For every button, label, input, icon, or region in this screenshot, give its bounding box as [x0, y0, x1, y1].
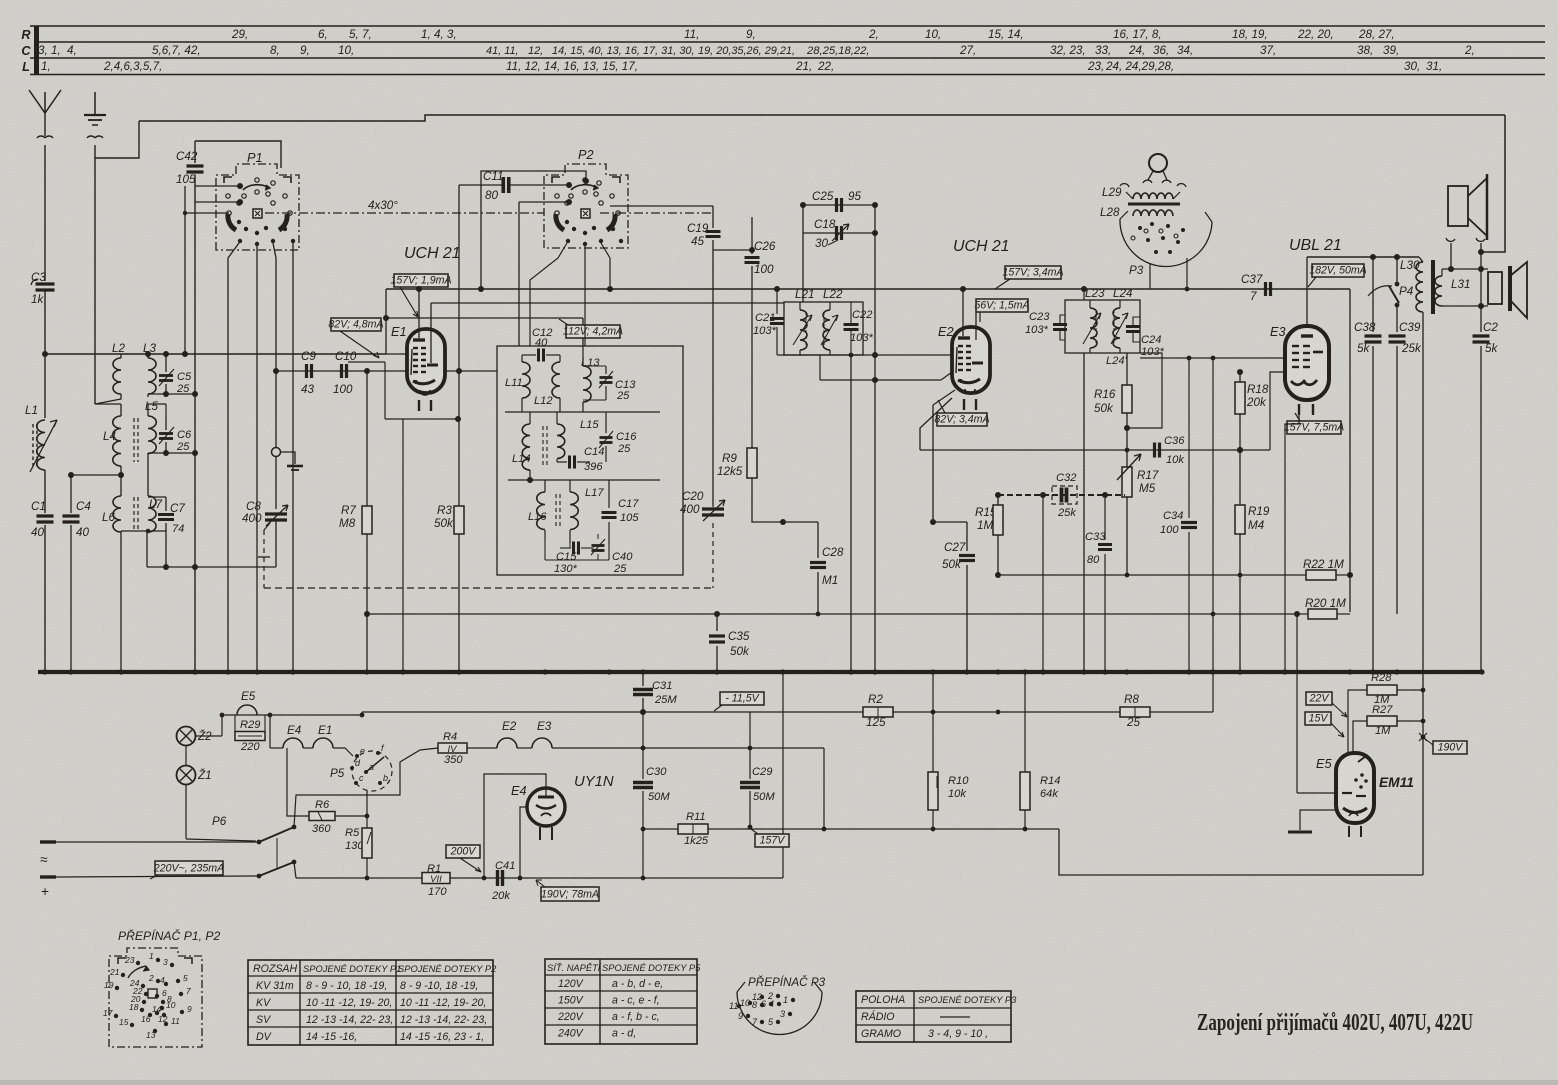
svg-text:125: 125	[866, 716, 886, 729]
svg-text:25: 25	[176, 441, 190, 453]
svg-text:L13: L13	[581, 357, 600, 369]
svg-text:25: 25	[176, 383, 190, 395]
svg-text:25k: 25k	[1401, 342, 1422, 355]
wire P3 connections	[1186, 258, 1188, 289]
svg-text:5k: 5k	[1485, 342, 1498, 355]
svg-text:E3: E3	[537, 720, 552, 733]
svg-text:240V: 240V	[557, 1028, 584, 1040]
wire r20 line y=612	[1084, 611, 1297, 613]
svg-text:12 -13 -14, 22- 23,: 12 -13 -14, 22- 23,	[400, 1014, 487, 1026]
wire heater top y=715	[222, 714, 362, 716]
wire L6 column to bus	[120, 531, 122, 672]
wire x=1043 to bus	[1042, 495, 1044, 672]
wire heater end drop x=824	[823, 748, 825, 829]
capacitor C15 130	[572, 542, 575, 555]
svg-text:100: 100	[1160, 524, 1179, 536]
svg-text:190V: 190V	[1438, 742, 1464, 754]
svg-text:64k: 64k	[1040, 788, 1059, 800]
svg-text:11, 12, 14, 16, 13, 15, 17,: 11, 12, 14, 16, 13, 15, 17,	[506, 60, 638, 73]
svg-text:+: +	[41, 884, 49, 899]
svg-text:18: 18	[129, 1002, 139, 1012]
svg-text:EM11: EM11	[1379, 775, 1414, 790]
table ROZSAH	[248, 960, 493, 1045]
speaker hooks	[1446, 238, 1455, 241]
wire L23 box feeds	[1083, 289, 1085, 300]
svg-text:C30: C30	[646, 766, 667, 778]
svg-text:2: 2	[148, 973, 154, 983]
EM11 cathode ground	[1300, 810, 1336, 830]
wire IF box bottom joins	[545, 559, 609, 561]
value box 220V 235mA	[155, 861, 223, 875]
wire L2-L4 link	[95, 403, 121, 405]
svg-text:2,: 2,	[1464, 44, 1475, 57]
svg-text:41, 11,: 41, 11,	[486, 45, 519, 57]
svg-text:C25: C25	[812, 190, 834, 203]
svg-text:R7: R7	[341, 504, 356, 517]
svg-text:R28: R28	[1371, 672, 1392, 684]
svg-text:Ž1: Ž1	[197, 769, 212, 782]
wire plate to L30 y=257	[1307, 256, 1419, 258]
IF transformer box L11-L17	[497, 346, 683, 575]
svg-text:C10: C10	[335, 350, 357, 363]
svg-text:16: 16	[141, 1014, 151, 1024]
svg-text:L28: L28	[1100, 206, 1120, 219]
svg-text:E2: E2	[502, 720, 517, 733]
wire C25/C18 left drop	[802, 205, 804, 302]
svg-text:15: 15	[119, 1017, 129, 1027]
svg-text:UY1N: UY1N	[574, 774, 614, 790]
svg-text:95: 95	[848, 190, 861, 203]
svg-text:8,: 8,	[270, 44, 280, 57]
svg-text:R3: R3	[437, 504, 452, 517]
svg-text:20k: 20k	[491, 890, 511, 902]
svg-text:103*: 103*	[1141, 346, 1165, 358]
svg-text:30: 30	[815, 237, 828, 250]
wire x=195 taps	[192, 450, 198, 456]
svg-text:8 - 9 -10, 18 -19,: 8 - 9 -10, 18 -19,	[400, 980, 478, 992]
capacitor C16 25 trimmer	[605, 412, 607, 433]
svg-text:22, 20,: 22, 20,	[1297, 28, 1334, 41]
wire oscillator coil return y=567	[147, 566, 276, 568]
svg-text:P3: P3	[1129, 264, 1144, 277]
svg-text:25M: 25M	[654, 694, 677, 706]
wire L3 bottom	[148, 393, 195, 395]
svg-text:R10: R10	[948, 775, 969, 787]
antenna coupling hook	[37, 136, 53, 138]
svg-text:C31: C31	[652, 680, 672, 692]
svg-text:L5: L5	[145, 400, 158, 413]
svg-text:157V; 1,9mA: 157V; 1,9mA	[390, 275, 451, 287]
svg-text:C39: C39	[1399, 321, 1421, 334]
svg-text:C1: C1	[31, 500, 46, 513]
wire C11 drop x=519	[518, 202, 520, 346]
transformer core L30/L31	[1431, 260, 1435, 314]
svg-text:220V~, 235mA: 220V~, 235mA	[153, 863, 224, 875]
capacitor C17 105	[608, 480, 610, 508]
dial lamp	[1149, 154, 1167, 172]
ground stub at grid leak	[287, 465, 303, 468]
svg-text:157V: 157V	[760, 835, 786, 847]
svg-text:5: 5	[183, 973, 188, 983]
value box 182V 50mA	[1312, 264, 1364, 277]
svg-text:C36: C36	[1164, 435, 1185, 447]
value box 82V 4,8mA	[331, 318, 381, 331]
value box 190V 78mA	[541, 887, 599, 901]
svg-text:C14: C14	[584, 446, 604, 458]
svg-text:C35: C35	[728, 630, 750, 643]
svg-text:50M: 50M	[753, 791, 775, 803]
core dashes L4/L5	[133, 418, 135, 462]
svg-text:C28: C28	[822, 546, 844, 559]
svg-text:C11: C11	[483, 170, 504, 183]
gang dashed C20 drop	[712, 523, 714, 588]
svg-text:C4: C4	[76, 500, 91, 513]
loudspeaker top	[1448, 186, 1468, 226]
svg-text:14 -15 -16,: 14 -15 -16,	[306, 1031, 357, 1043]
wire ground line down to L2 bottom	[94, 145, 96, 404]
wire antenna down to C3	[44, 145, 46, 281]
tuned circuit box L23/L24	[1065, 300, 1140, 353]
wire x=195 to bus	[194, 530, 196, 532]
svg-text:C33: C33	[1085, 531, 1106, 543]
svg-text:23: 23	[124, 955, 135, 965]
wire E2 lower grid y=380	[819, 355, 821, 380]
svg-text:5,6,7, 42,: 5,6,7, 42,	[152, 44, 201, 57]
svg-text:R22 1M: R22 1M	[1303, 558, 1344, 571]
wire E2 plate risers	[962, 289, 964, 336]
lamp Z2	[177, 727, 196, 746]
svg-text:UCH 21: UCH 21	[953, 238, 1010, 255]
svg-text:2,: 2,	[868, 28, 879, 41]
gang dashed C8 drop	[264, 523, 270, 530]
wire x=1213 drop	[1212, 358, 1214, 614]
svg-text:C20: C20	[682, 490, 704, 503]
svg-text:a - d,: a - d,	[612, 1028, 636, 1040]
antenna symbol	[29, 90, 61, 113]
wire EM11 grid feeds	[1348, 690, 1367, 770]
value box 157V	[755, 834, 789, 847]
wire E3 plate riser	[1306, 257, 1308, 326]
svg-text:10,: 10,	[925, 28, 941, 41]
bus junction dots	[42, 669, 47, 674]
svg-text:VII: VII	[430, 874, 442, 885]
capacitor C6 25 trimmer	[165, 415, 167, 430]
value box 157V 3,4mA	[1005, 266, 1061, 279]
svg-text:38,: 38,	[1357, 44, 1373, 57]
wire E3 cathode to bus	[1285, 413, 1299, 672]
svg-text:14 -15 -16, 23 - 1,: 14 -15 -16, 23 - 1,	[400, 1031, 484, 1043]
svg-text:R29: R29	[240, 719, 260, 731]
wire L24 secondary down	[1126, 353, 1128, 385]
svg-text:50k: 50k	[942, 558, 962, 571]
svg-text:8: 8	[752, 1000, 757, 1010]
capacitor C5 25 trimmer	[165, 354, 167, 372]
switch P1 body	[216, 164, 299, 250]
svg-text:50M: 50M	[648, 791, 670, 803]
lamp Z1	[177, 766, 196, 785]
svg-text:C19: C19	[687, 222, 709, 235]
svg-text:L15: L15	[580, 419, 599, 431]
svg-text:R8: R8	[1124, 693, 1139, 706]
svg-text:M8: M8	[339, 517, 356, 530]
svg-text:30,: 30,	[1404, 60, 1420, 73]
svg-text:10: 10	[740, 998, 750, 1008]
wire C11 feed	[459, 184, 503, 186]
svg-text:UBL 21: UBL 21	[1289, 237, 1342, 254]
svg-text:74: 74	[172, 523, 184, 535]
capacitor C24 103	[1126, 325, 1140, 328]
svg-text:22,: 22,	[817, 60, 834, 73]
svg-text:80: 80	[485, 189, 498, 202]
svg-text:6,: 6,	[318, 28, 328, 41]
svg-text:E4: E4	[287, 724, 302, 737]
svg-text:P4: P4	[1399, 285, 1414, 298]
wire L5 bottom y=453	[148, 452, 195, 454]
svg-text:130*: 130*	[554, 563, 578, 575]
svg-text:25k: 25k	[1057, 507, 1077, 519]
svg-text:40: 40	[76, 526, 89, 539]
svg-text:5k: 5k	[1357, 342, 1370, 355]
svg-text:1M: 1M	[977, 519, 993, 532]
wire avc line y=614	[367, 613, 1297, 615]
svg-text:9: 9	[738, 1011, 743, 1021]
svg-text:18, 19,: 18, 19,	[1232, 28, 1268, 41]
svg-text:3, 1,: 3, 1,	[38, 44, 61, 57]
wire x=1213 riser	[1212, 614, 1214, 712]
wire E1 plate riser	[385, 289, 387, 354]
svg-text:20k: 20k	[1246, 396, 1267, 409]
svg-text:POLOHA: POLOHA	[861, 994, 905, 1006]
wire y=318 to IF	[386, 317, 583, 319]
loudspeaker right	[1488, 272, 1502, 304]
svg-text:E4: E4	[511, 783, 527, 798]
svg-text:R18: R18	[1247, 383, 1269, 396]
svg-text:R16: R16	[1094, 388, 1116, 401]
svg-text:RÁDIO: RÁDIO	[861, 1010, 895, 1023]
table SIT NAPETI	[545, 959, 697, 1044]
svg-text:E5: E5	[1316, 756, 1332, 771]
svg-text:- 11,5V: - 11,5V	[725, 693, 759, 705]
resistor R10 10k	[932, 672, 934, 772]
svg-text:C9: C9	[301, 350, 316, 363]
wire C19 to C26	[713, 249, 752, 251]
wire IF mid y=412	[505, 411, 660, 413]
svg-text:360: 360	[312, 823, 331, 835]
svg-text:C22: C22	[852, 309, 873, 321]
svg-text:P2: P2	[578, 147, 594, 162]
svg-text:1, 4, 3,: 1, 4, 3,	[421, 28, 457, 41]
value box 157V 1,9mA	[394, 274, 448, 287]
svg-text:100: 100	[333, 383, 353, 396]
svg-text:SPOJENÉ DOTEKY P1: SPOJENÉ DOTEKY P1	[303, 964, 401, 974]
svg-text:R14: R14	[1040, 775, 1060, 787]
svg-text:R27: R27	[1372, 704, 1393, 716]
svg-text:M1: M1	[822, 574, 838, 587]
mains terminals	[40, 840, 56, 843]
svg-text:15V: 15V	[1309, 713, 1329, 725]
svg-text:50k: 50k	[1094, 402, 1114, 415]
svg-text:9: 9	[187, 1004, 192, 1014]
svg-text:R5: R5	[345, 827, 360, 839]
svg-text:120V: 120V	[558, 978, 584, 990]
svg-text:L17: L17	[585, 487, 604, 499]
svg-text:1k: 1k	[31, 293, 44, 306]
svg-text:50k: 50k	[730, 645, 750, 658]
svg-text:39,: 39,	[1383, 44, 1399, 57]
svg-text:16, 17, 8,: 16, 17, 8,	[1113, 28, 1162, 41]
svg-text:29,: 29,	[231, 28, 248, 41]
gang dashed bottom run	[264, 587, 713, 589]
svg-text:b: b	[383, 773, 388, 783]
wire to speaker2	[1480, 252, 1482, 332]
wire R16 bypass	[1127, 353, 1162, 428]
svg-text:10k: 10k	[948, 788, 967, 800]
svg-text:L31: L31	[1451, 278, 1470, 291]
svg-text:4,: 4,	[67, 44, 77, 57]
svg-text:112V; 4,2mA: 112V; 4,2mA	[563, 326, 623, 338]
svg-text:40: 40	[535, 337, 548, 349]
svg-text:C17: C17	[618, 498, 639, 510]
svg-text:25: 25	[617, 443, 631, 455]
svg-text:3 - 4, 9 - 10 ,: 3 - 4, 9 - 10 ,	[928, 1028, 988, 1040]
svg-text:C2: C2	[1483, 321, 1498, 334]
svg-text:E1: E1	[318, 724, 332, 737]
svg-text:15, 14,: 15, 14,	[988, 28, 1024, 41]
svg-text:2,4,6,3,5,7,: 2,4,6,3,5,7,	[103, 60, 162, 73]
svg-text:P5: P5	[330, 767, 345, 780]
svg-text:L24: L24	[1113, 287, 1133, 300]
svg-text:12 -13 -14, 22- 23,: 12 -13 -14, 22- 23,	[306, 1014, 393, 1026]
svg-text:a - c, e - f,: a - c, e - f,	[612, 995, 660, 1007]
svg-text:43: 43	[301, 383, 314, 396]
svg-text:50k: 50k	[434, 517, 454, 530]
svg-text:36,: 36,	[1153, 44, 1169, 57]
svg-text:P1: P1	[247, 150, 263, 165]
svg-text:3: 3	[780, 1009, 785, 1019]
wire E2 grid from box	[875, 354, 951, 356]
wire bias line y=712	[362, 711, 1213, 713]
svg-text:25: 25	[616, 390, 630, 402]
svg-text:L24': L24'	[1106, 355, 1128, 367]
wire C37 line continues	[1349, 289, 1351, 612]
svg-text:24,: 24,	[1128, 44, 1145, 57]
core L28/L29	[1128, 203, 1180, 206]
svg-text:103*: 103*	[850, 332, 874, 344]
svg-text:C27: C27	[944, 541, 966, 554]
svg-text:11: 11	[171, 1016, 180, 1026]
wire antenna tap y=354	[45, 353, 386, 355]
wire screen line y=303	[431, 302, 784, 304]
svg-text:a - b, d - e,: a - b, d - e,	[612, 978, 663, 990]
switch P1 top cover box	[195, 141, 281, 168]
value box 82V 3,4mA	[937, 413, 987, 426]
svg-text:R6: R6	[315, 799, 330, 811]
wire P2 grid tap y=202	[519, 201, 569, 203]
svg-text:SÍŤ. NAPĚTÍ: SÍŤ. NAPĚTÍ	[547, 963, 602, 973]
value box -11,5V	[720, 692, 764, 705]
svg-text:GRAMO: GRAMO	[861, 1028, 901, 1040]
svg-text:21,: 21,	[795, 60, 812, 73]
wire L24sec to E3 via y358	[1139, 357, 1141, 359]
svg-text:11: 11	[729, 1001, 738, 1011]
svg-text:200V: 200V	[450, 846, 477, 858]
svg-text:C37: C37	[1241, 273, 1263, 286]
svg-text:1,: 1,	[41, 60, 51, 73]
svg-text:C15: C15	[556, 551, 577, 563]
svg-text:400: 400	[242, 512, 262, 525]
svg-text:19, 20,35,26, 29,21,: 19, 20,35,26, 29,21,	[698, 45, 795, 57]
capacitor C36 10k	[920, 449, 1270, 451]
svg-text:32, 23,: 32, 23,	[1050, 44, 1086, 57]
svg-text:220V: 220V	[557, 1011, 584, 1023]
value box 157V 7,5mA	[1287, 421, 1341, 434]
svg-text:L23: L23	[1085, 287, 1105, 300]
value box 112V 4,2mA	[566, 325, 620, 338]
svg-text:182V, 50mA: 182V, 50mA	[1309, 265, 1367, 277]
svg-text:33,: 33,	[1095, 44, 1111, 57]
svg-text:R4: R4	[443, 731, 457, 743]
wire C4 top y=475	[71, 474, 121, 476]
wire lamps to P6	[185, 785, 187, 839]
wire C22 column to bus	[850, 355, 852, 672]
switch diagram P1/P2 body	[109, 948, 202, 1047]
svg-text:17: 17	[103, 1008, 113, 1018]
svg-text:7: 7	[186, 986, 191, 996]
svg-text:9,: 9,	[300, 44, 310, 57]
value box 190V	[1433, 741, 1467, 754]
svg-text:C24: C24	[1141, 334, 1161, 346]
wire volume to R22 y=575	[998, 574, 1306, 576]
svg-text:L22: L22	[823, 288, 843, 301]
ground symbol	[94, 92, 96, 115]
svg-text:21: 21	[109, 967, 119, 977]
svg-text:37,: 37,	[1260, 44, 1276, 57]
svg-text:SV: SV	[256, 1014, 271, 1026]
svg-text:13: 13	[146, 1030, 156, 1040]
capacitor C14 396	[568, 456, 571, 469]
svg-text:4x30°: 4x30°	[368, 199, 398, 212]
svg-text:12k5: 12k5	[717, 465, 743, 478]
svg-text:400: 400	[680, 503, 700, 516]
svg-text:L29: L29	[1102, 186, 1122, 199]
svg-text:L2: L2	[112, 342, 125, 355]
svg-text:M4: M4	[1248, 519, 1265, 532]
svg-text:19: 19	[104, 980, 114, 990]
svg-text:82V; 4,8mA: 82V; 4,8mA	[328, 319, 383, 331]
wire top horizontal bus to speaker	[139, 115, 1505, 121]
wire top feed from ground line	[95, 121, 139, 158]
svg-text:C18: C18	[814, 218, 836, 231]
tuned circuit box L21/L22	[784, 302, 863, 355]
wire EM11 anode feed x=1297	[1296, 614, 1298, 793]
value box 56V 1,5mA	[976, 299, 1028, 312]
capacitor C13 25 trimmer	[605, 366, 607, 374]
svg-text:1k25: 1k25	[684, 835, 709, 847]
svg-text:12,: 12,	[528, 45, 543, 57]
svg-text:11,: 11,	[684, 28, 699, 41]
svg-text:R: R	[21, 27, 31, 42]
svg-text:14: 14	[152, 1004, 162, 1014]
svg-text:C40: C40	[612, 551, 633, 563]
svg-text:Zapojení přijímačů 402U, 407U,: Zapojení přijímačů 402U, 407U, 422U	[1197, 1010, 1473, 1036]
wire risers to y=567	[146, 531, 148, 567]
wire E4 cathode	[520, 807, 527, 878]
svg-text:L21: L21	[795, 288, 814, 301]
ruler R/C/L index lines	[30, 25, 1545, 27]
svg-text:C: C	[21, 43, 31, 58]
svg-text:R19: R19	[1248, 505, 1270, 518]
wire C3 to L1	[44, 290, 46, 418]
